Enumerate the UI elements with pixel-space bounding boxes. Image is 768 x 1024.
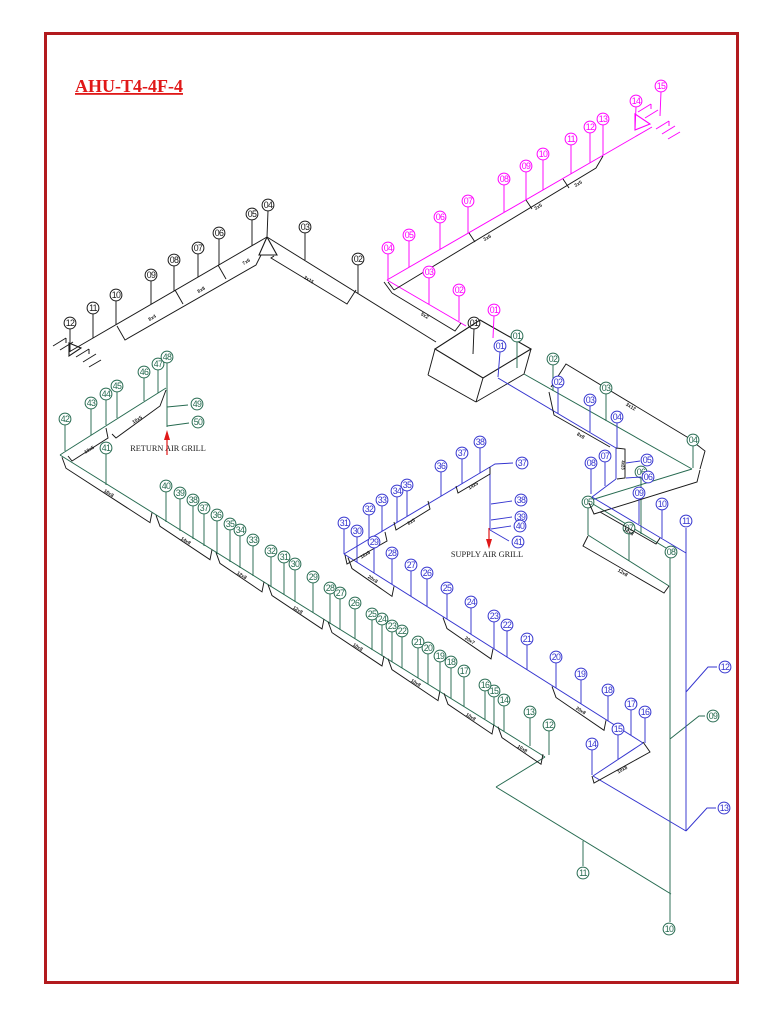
svg-text:35: 35 (403, 480, 412, 490)
balloon green 23 (386, 620, 398, 632)
duct outline blue AHU run (549, 392, 610, 447)
leader green 27 (339, 599, 341, 630)
balloon blue 33 (376, 494, 388, 506)
leader magenta 09 (525, 172, 527, 200)
wire green long vertical (669, 558, 671, 894)
balloon magenta 01 (488, 304, 500, 316)
svg-text:02: 02 (354, 254, 363, 264)
AHU box right edge (524, 349, 531, 374)
svg-text:36: 36 (437, 461, 446, 471)
svg-text:23: 23 (388, 621, 397, 631)
leader green 30 (294, 570, 296, 602)
leader blue 41b (490, 530, 509, 541)
wire green vertical drop short (587, 502, 589, 535)
leader magenta 07 (467, 207, 469, 233)
leader blue 03 (589, 406, 591, 432)
leader magenta 15 (660, 92, 661, 116)
balloon blue 38b (515, 494, 527, 506)
balloon blue 17 (625, 698, 637, 710)
svg-text:30: 30 (353, 526, 362, 536)
svg-text:05: 05 (248, 209, 257, 219)
balloon blue 39b (515, 511, 527, 523)
balloon green 21 (412, 636, 424, 648)
duct outline green long seg1 (62, 457, 152, 522)
svg-text:25: 25 (443, 583, 452, 593)
wire black main right arm (267, 237, 436, 342)
leader green 06 (640, 478, 642, 534)
balloon blue 24 (465, 596, 477, 608)
svg-text:16: 16 (641, 707, 650, 717)
grille hatch symbol magenta end (635, 114, 650, 130)
svg-text:01: 01 (513, 331, 522, 341)
svg-text:27: 27 (407, 560, 416, 570)
balloon magenta 04 (382, 242, 394, 254)
balloon blue 37b (516, 457, 528, 469)
balloon blue 41b (512, 536, 524, 548)
balloon blue 03 (584, 394, 596, 406)
duct outline magenta upper cap (388, 282, 394, 290)
duct outline blue duct14-16 (592, 742, 650, 783)
leader magenta 04 (387, 254, 389, 279)
balloon blue 34 (391, 485, 403, 497)
wire green branch joint (60, 453, 63, 455)
leader green 26 (354, 609, 356, 639)
balloon blue 30 (351, 525, 363, 537)
balloon green 27 (334, 587, 346, 599)
leader black 01 (473, 329, 474, 354)
leader blue 07 (604, 462, 606, 486)
balloon magenta 07 (462, 195, 474, 207)
leader green 33 (252, 546, 254, 576)
duct outline green long seg5 (328, 622, 384, 666)
leader magenta 08 (503, 185, 505, 212)
balloon blue 04 (611, 411, 623, 423)
balloon green 50 (192, 416, 204, 428)
svg-text:09: 09 (635, 488, 644, 498)
leader blue 21 (526, 645, 528, 670)
leader magenta 14 (635, 107, 636, 130)
svg-text:21: 21 (523, 634, 532, 644)
leader green 40 (165, 492, 167, 522)
balloon magenta 11 (565, 133, 577, 145)
svg-text:44: 44 (102, 389, 111, 399)
svg-text:09: 09 (147, 270, 156, 280)
svg-text:38: 38 (189, 495, 198, 505)
balloon blue 26 (421, 567, 433, 579)
leader green 49 (167, 405, 188, 407)
balloon green 06 (635, 466, 647, 478)
leader magenta 01 (493, 316, 494, 338)
svg-text:08: 08 (170, 255, 179, 265)
svg-text:08: 08 (667, 547, 676, 557)
duct outline green long seg6 (388, 659, 440, 701)
balloon green 17 (458, 665, 470, 677)
balloon green 12 (543, 719, 555, 731)
balloon black 12 (64, 317, 76, 329)
balloon blue 35 (401, 479, 413, 491)
leader blue 38b (491, 501, 512, 504)
balloon magenta 02 (453, 284, 465, 296)
leader blue 15 (617, 735, 619, 759)
duct outline blue long seg1 (348, 558, 394, 597)
balloon blue 31 (338, 517, 350, 529)
leader blue 01 (498, 352, 500, 377)
svg-text:11: 11 (579, 868, 588, 878)
balloon blue 40b (514, 520, 526, 532)
duct outline black left arm (117, 255, 261, 340)
svg-text:10: 10 (112, 290, 121, 300)
balloon green 45 (111, 380, 123, 392)
balloon blue 21 (521, 633, 533, 645)
wire green grill branch (63, 388, 166, 453)
balloon green 34 (234, 524, 246, 536)
leader blue 20 (555, 663, 557, 688)
leader blue 14 (591, 750, 593, 775)
leader blue 17 (630, 710, 632, 735)
leader blue 30 (356, 537, 358, 562)
duct outline green long seg7 (444, 693, 494, 734)
leader green 24 (381, 625, 383, 656)
balloon magenta 15 (655, 80, 667, 92)
leader blue 29 (373, 548, 375, 573)
wire green stub balloon10 (669, 894, 671, 922)
svg-text:05: 05 (643, 455, 652, 465)
wire blue jog down-left (592, 479, 616, 497)
duct outline black right arm (271, 256, 356, 304)
arrow supply grill (486, 528, 492, 549)
svg-text:22: 22 (503, 620, 512, 630)
leader green 17 (463, 677, 465, 707)
balloon blue 13 (718, 802, 730, 814)
wire magenta branch to AHU (387, 280, 466, 326)
leader blue 04 (616, 423, 618, 448)
leader blue 36 (440, 472, 442, 496)
duct outline magenta lower (392, 293, 461, 331)
svg-text:09: 09 (709, 711, 718, 721)
balloon green 19 (434, 650, 446, 662)
wire blue mid diagonal (592, 497, 686, 553)
balloon green 08 (665, 546, 677, 558)
svg-text:42: 42 (61, 414, 70, 424)
balloon blue 32 (363, 503, 375, 515)
svg-text:17: 17 (460, 666, 469, 676)
balloon green 20 (422, 642, 434, 654)
duct outline green long seg3 (216, 552, 264, 591)
balloon black 02 (352, 253, 364, 265)
svg-text:4x23: 4x23 (621, 460, 626, 470)
balloon black 06 (213, 227, 225, 239)
duct outline green elbow (589, 470, 700, 514)
leader blue 06 (626, 477, 641, 478)
leader magenta 11 (570, 145, 572, 174)
balloon blue 06 (642, 471, 654, 483)
tick magenta 3 (563, 179, 569, 188)
balloon magenta 13 (597, 113, 609, 125)
balloon blue 10 (656, 498, 668, 510)
leader green 32 (270, 557, 272, 587)
balloon green 35 (224, 518, 236, 530)
balloon green 42 (59, 413, 71, 425)
balloon black 04 (262, 199, 274, 211)
balloon magenta 05 (403, 229, 415, 241)
leader black 07 (197, 254, 199, 277)
leader green 35 (229, 530, 231, 562)
svg-text:12: 12 (721, 662, 730, 672)
svg-text:07: 07 (194, 243, 203, 253)
svg-text:15: 15 (490, 686, 499, 696)
svg-text:01: 01 (496, 341, 505, 351)
fitting apex triangle (259, 237, 277, 255)
svg-text:24: 24 (467, 597, 476, 607)
leader green 16 (484, 691, 486, 719)
duct outline blue branch s3 (456, 467, 490, 493)
svg-text:32: 32 (365, 504, 374, 514)
svg-text:06: 06 (644, 472, 653, 482)
duct outline green lower diag (583, 536, 669, 593)
balloon blue 02 (552, 376, 564, 388)
balloon magenta 12 (584, 121, 596, 133)
tick black left arm 1 (175, 290, 183, 304)
leader blue 26 (426, 579, 428, 606)
leader green 19 (439, 662, 441, 692)
leader green 09 (670, 716, 705, 739)
wire green lower diagonal (588, 535, 669, 586)
svg-text:07: 07 (464, 196, 473, 206)
balloon green 11 (577, 867, 589, 879)
balloon green 38 (187, 494, 199, 506)
svg-text:03: 03 (301, 222, 310, 232)
balloon green 43 (85, 397, 97, 409)
svg-text:46: 46 (140, 367, 149, 377)
duct outline magenta lower cap (384, 282, 392, 293)
duct outline green long seg4 (268, 585, 324, 629)
leader green 03 (605, 394, 607, 421)
svg-text:33: 33 (378, 495, 387, 505)
svg-text:25: 25 (368, 609, 377, 619)
balloon green 48 (161, 351, 173, 363)
leader blue 32 (368, 515, 370, 539)
leader green 21 (417, 648, 419, 678)
wire blue duct 14-16 seg (593, 743, 643, 776)
AHU box bottom left (428, 375, 476, 402)
balloon green 25 (366, 608, 378, 620)
balloon blue 07 (599, 450, 611, 462)
balloon black 11 (87, 302, 99, 314)
leader green 23 (391, 632, 393, 662)
balloon green 22 (396, 625, 408, 637)
svg-text:40: 40 (516, 521, 525, 531)
svg-text:10: 10 (658, 499, 667, 509)
balloon blue 38 (474, 436, 486, 448)
wire green long run main (60, 455, 545, 757)
balloon blue 27 (405, 559, 417, 571)
leader green 29 (312, 583, 314, 613)
AHU box top face (435, 320, 531, 378)
duct outline blue branch s2 (394, 501, 430, 530)
leader blue 23 (493, 622, 495, 649)
balloon green 07 (623, 522, 635, 534)
leader green 31 (283, 563, 285, 595)
leader blue 38 (479, 448, 481, 473)
svg-text:15: 15 (614, 724, 623, 734)
balloon magenta 03 (423, 266, 435, 278)
balloon green 44 (100, 388, 112, 400)
svg-text:31: 31 (280, 552, 289, 562)
leader blue 35 (406, 491, 408, 516)
balloon green 49 (191, 398, 203, 410)
leader magenta 05 (408, 241, 410, 267)
svg-text:AHU-T4-4F-4: AHU-T4-4F-4 (75, 76, 183, 96)
leader green 11 (582, 841, 584, 866)
leader green 48 (166, 363, 168, 388)
svg-text:28: 28 (388, 548, 397, 558)
svg-text:50: 50 (194, 417, 203, 427)
balloon blue 11 (680, 515, 692, 527)
balloon green 37 (198, 502, 210, 514)
leader green 04 (692, 446, 694, 468)
svg-text:41: 41 (102, 443, 111, 453)
svg-text:41: 41 (514, 537, 523, 547)
leader blue 37 (461, 459, 463, 484)
wire blue grill branch (344, 467, 490, 554)
balloon green 24 (376, 613, 388, 625)
wire green elbow down-left (588, 469, 692, 501)
svg-text:13: 13 (526, 707, 535, 717)
svg-text:34: 34 (236, 525, 245, 535)
balloon blue 12 (719, 661, 731, 673)
svg-text:34: 34 (393, 486, 402, 496)
leader blue 12 (686, 667, 717, 692)
svg-text:21: 21 (414, 637, 423, 647)
svg-text:17: 17 (627, 699, 636, 709)
balloon green 04 (687, 434, 699, 446)
svg-text:24: 24 (378, 614, 387, 624)
svg-text:28: 28 (326, 583, 335, 593)
svg-text:11: 11 (567, 134, 576, 144)
balloon blue 37 (456, 447, 468, 459)
balloon magenta 14 (630, 95, 642, 107)
leader green 15 (493, 697, 495, 725)
balloon green 39 (174, 487, 186, 499)
leader green 14 (503, 706, 505, 731)
balloon green 36 (211, 509, 223, 521)
svg-text:12: 12 (545, 720, 554, 730)
svg-text:40: 40 (162, 481, 171, 491)
balloon blue 05 (641, 454, 653, 466)
svg-text:04: 04 (264, 200, 273, 210)
svg-text:04: 04 (613, 412, 622, 422)
leader green 20 (427, 654, 429, 684)
wire blue long run main (344, 554, 643, 743)
svg-text:38: 38 (517, 495, 526, 505)
svg-text:14: 14 (588, 739, 597, 749)
balloon green 28 (324, 582, 336, 594)
leader green 34 (239, 536, 241, 568)
leader blue 25 (446, 594, 448, 619)
duct outline blue mid (600, 512, 660, 544)
svg-text:19: 19 (436, 651, 445, 661)
balloon green 15 (488, 685, 500, 697)
svg-text:37: 37 (200, 503, 209, 513)
svg-text:03: 03 (602, 383, 611, 393)
svg-text:08: 08 (587, 458, 596, 468)
balloon blue 01 (494, 340, 506, 352)
leader green 07 (628, 534, 630, 561)
leader black 02 (357, 265, 359, 293)
balloon green 16 (479, 679, 491, 691)
wire blue AHU run (498, 378, 616, 448)
balloon green 14 (498, 694, 510, 706)
leader black 04 (267, 211, 268, 237)
leader blue 39b (491, 517, 512, 520)
svg-text:20: 20 (552, 652, 561, 662)
balloon black 10 (110, 289, 122, 301)
svg-text:26: 26 (423, 568, 432, 578)
leader blue 18 (607, 696, 609, 721)
leader green 02 (552, 365, 554, 391)
balloon green 30 (289, 558, 301, 570)
duct outline magenta upper (394, 156, 603, 290)
arrow return grill (164, 430, 170, 455)
svg-text:22: 22 (398, 626, 407, 636)
balloon black 07 (192, 242, 204, 254)
leader magenta 10 (542, 160, 544, 190)
leader black 11 (92, 314, 94, 338)
leader blue 28 (391, 559, 393, 584)
leader green 01 (516, 342, 518, 368)
svg-text:11: 11 (682, 516, 691, 526)
svg-text:39: 39 (176, 488, 185, 498)
wire green AHU run (524, 374, 692, 469)
leader blue 13 (686, 808, 716, 831)
balloon blue 19 (575, 668, 587, 680)
wire blue drop vertical (615, 448, 617, 479)
svg-text:26: 26 (351, 598, 360, 608)
svg-text:35: 35 (226, 519, 235, 529)
balloon green 01 (511, 330, 523, 342)
svg-text:04: 04 (384, 243, 393, 253)
leader blue 40b (491, 526, 511, 529)
balloon green 40 (160, 480, 172, 492)
balloon magenta 08 (498, 173, 510, 185)
leader blue 09 (638, 499, 640, 524)
svg-text:27: 27 (336, 588, 345, 598)
svg-text:08: 08 (500, 174, 509, 184)
AHU box left edge (428, 349, 435, 375)
tick magenta 1 (469, 233, 475, 242)
svg-text:36: 36 (213, 510, 222, 520)
leader blue 10 (661, 510, 663, 538)
svg-text:12: 12 (586, 122, 595, 132)
balloon blue 09 (633, 487, 645, 499)
svg-text:45: 45 (113, 381, 122, 391)
svg-text:43: 43 (87, 398, 96, 408)
balloon green 09 (707, 710, 719, 722)
leader green 25 (371, 620, 373, 650)
wire blue long vertical (685, 528, 687, 831)
wire magenta main (387, 127, 652, 280)
svg-text:49: 49 (193, 399, 202, 409)
balloon magenta 06 (434, 211, 446, 223)
duct outline blue long seg2 (443, 618, 493, 659)
leader green 44 (105, 400, 107, 425)
leader blue 37b (490, 463, 513, 467)
leader blue 08 (590, 469, 592, 494)
svg-text:19: 19 (577, 669, 586, 679)
svg-text:29: 29 (370, 537, 379, 547)
svg-text:01: 01 (490, 305, 499, 315)
leader green 37 (203, 514, 205, 546)
